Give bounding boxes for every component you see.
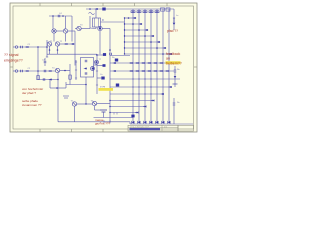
wire k1 down	[95, 27, 97, 29]
node in2	[37, 70, 39, 72]
base row 5	[125, 41, 161, 43]
wire q45	[49, 47, 51, 55]
diode D3	[84, 68, 87, 70]
wire x72 stub	[71, 16, 73, 42]
grid row m2	[110, 70, 174, 72]
comp blob2	[101, 77, 104, 80]
svg-text:an: an	[166, 57, 170, 61]
base row 2	[125, 23, 143, 25]
wire c8	[95, 109, 101, 111]
node n88	[56, 87, 58, 89]
node nq89	[85, 103, 86, 104]
grid row m5	[110, 93, 163, 95]
wire c3	[44, 58, 46, 61]
comp blob1	[103, 53, 106, 56]
row cross dot 4	[144, 35, 146, 37]
wire q9 down	[94, 106, 96, 110]
wire row53	[47, 53, 97, 55]
tick pair	[113, 113, 115, 115]
driver arrow u2	[139, 23, 142, 25]
wire q1 base	[52, 16, 54, 29]
wire bias vertical	[37, 47, 39, 80]
grid node 133-79	[133, 79, 134, 80]
node br4	[124, 35, 125, 36]
wire bottom ground rail	[58, 121, 130, 123]
wire box out	[94, 64, 98, 66]
node n47	[46, 46, 48, 48]
grid node 139-87	[139, 87, 140, 88]
node q4e	[49, 49, 51, 51]
svg-text:?? signal: ?? signal	[4, 53, 19, 57]
grid row m6	[110, 100, 155, 102]
capacitor C4	[58, 15, 60, 18]
gnd ticks	[103, 120, 105, 123]
node b110	[109, 49, 111, 51]
wire x50 vert	[49, 80, 51, 89]
wire q6 out	[60, 70, 70, 72]
driver arrow u1	[133, 17, 136, 19]
grid node 151-79	[151, 79, 152, 80]
led D5	[173, 18, 175, 23]
capacitor C5	[85, 60, 87, 63]
page background	[0, 0, 200, 144]
emitter resistor pair col2	[137, 11, 139, 13]
resistor R2	[25, 70, 28, 72]
node n70	[64, 70, 66, 72]
base row 1	[125, 17, 137, 19]
grid node 133-87	[133, 87, 134, 88]
bottom diode x133	[132, 121, 135, 124]
node br7	[124, 53, 125, 54]
grid row m0	[110, 55, 130, 57]
base row 7	[125, 53, 173, 55]
bottom diode x151	[150, 121, 153, 124]
drv arrow m2	[113, 70, 116, 72]
resistor R4	[69, 75, 72, 79]
transistor Q8	[72, 102, 76, 106]
box U1	[81, 58, 94, 78]
grid node 139-79	[139, 79, 140, 80]
comp blob4	[116, 84, 119, 87]
node t1	[52, 15, 54, 17]
driver arrow u3	[145, 29, 148, 31]
emitter resistor pair col4	[149, 11, 151, 13]
grid node 139-94	[139, 94, 140, 95]
transistor Q6	[55, 68, 59, 72]
out arrow y63x139	[135, 62, 138, 64]
wire q3 right	[81, 28, 90, 30]
output column wire 3	[144, 9, 146, 123]
wire q10 right	[102, 28, 110, 30]
svg-text:zusammen ??: zusammen ??	[22, 103, 42, 107]
grid node 145-87	[145, 87, 146, 88]
wire input2	[13, 70, 15, 72]
grid row m4	[110, 86, 171, 88]
driver arrow u5	[157, 41, 160, 43]
wire q1 down	[53, 34, 55, 42]
fb comp b	[173, 83, 178, 85]
tick 97a	[96, 70, 98, 72]
node n795	[57, 79, 58, 80]
comp cluster	[63, 96, 69, 98]
wire q2 down	[65, 34, 67, 42]
output column wire 4	[150, 9, 152, 123]
out arrow y71x151	[147, 70, 150, 72]
svg-text:gez?mt ???: gez?mt ???	[95, 122, 110, 126]
wire blob mid stub	[97, 65, 103, 67]
node br5	[124, 41, 125, 42]
stair arrow a2	[161, 93, 164, 95]
wire k1 to bus	[101, 21, 125, 23]
wire x75 vert	[74, 31, 76, 66]
bottom diode x139	[138, 121, 141, 124]
svg-text:pfad ??: pfad ??	[167, 29, 178, 33]
wire vert x47	[46, 40, 48, 57]
out arrow y63x163	[159, 62, 162, 64]
fb comp c	[173, 103, 176, 105]
wire x76 vert	[75, 60, 77, 80]
out arrow y71x133	[129, 70, 132, 72]
wire bus x97	[96, 54, 98, 94]
node b97a	[96, 54, 98, 56]
wire row44	[60, 43, 75, 45]
node t2	[62, 15, 64, 17]
out arrow y71x145	[141, 70, 144, 72]
base row 3	[125, 29, 149, 31]
row cross dot 5	[150, 41, 152, 43]
connector J2	[15, 70, 17, 72]
comp blob3	[115, 59, 118, 62]
grid node 133-94	[133, 94, 134, 95]
fb comp a	[174, 70, 177, 72]
row cross dot 2	[132, 23, 134, 25]
svg-text:R: R	[102, 19, 104, 22]
svg-text:treibern??: treibern??	[166, 62, 182, 66]
resistor R1	[25, 46, 28, 48]
transistor Q3	[77, 26, 81, 30]
wire led branch	[173, 9, 175, 30]
wire q10 down	[99, 31, 101, 55]
stair arrow a1	[169, 86, 172, 88]
wire q2 stub	[65, 16, 67, 29]
wire blob2 stub	[97, 77, 101, 79]
grid node 145-79	[145, 79, 146, 80]
grid row m8	[110, 112, 139, 114]
svg-text:?·??: ?·??	[100, 86, 106, 89]
wire q9 right	[97, 103, 110, 105]
transistor Q1	[52, 29, 56, 33]
wire x70 vert	[69, 64, 71, 85]
bottom diode x145	[144, 121, 147, 124]
node br3	[124, 29, 125, 30]
out arrow y63x133	[129, 62, 132, 64]
resistor R2b	[48, 70, 51, 72]
wire b97 stub	[97, 54, 103, 56]
node br1	[124, 17, 125, 18]
relay marks	[94, 18, 96, 27]
wire left ground vert	[57, 73, 59, 122]
node in1	[37, 46, 39, 48]
inductor L1	[89, 13, 95, 15]
output column wire 5	[156, 9, 158, 123]
wire base bus x124	[124, 18, 126, 54]
diode D2	[71, 43, 74, 45]
border tick top	[39, 3, 41, 6]
wire q8 down	[74, 106, 76, 122]
wire top small	[49, 15, 72, 17]
capacitor C2b	[44, 70, 46, 73]
transistor Q4	[47, 42, 51, 46]
grid node 151-94	[151, 94, 152, 95]
svg-text:eingänge??: eingänge??	[4, 59, 23, 63]
emitter resistor pair col3	[143, 11, 145, 13]
grid node 151-87	[151, 87, 152, 88]
out arrow y71x169	[165, 70, 168, 72]
title block	[128, 125, 178, 131]
capacitor C9	[43, 78, 45, 81]
capacitor C6	[85, 72, 87, 75]
wire q2 right	[68, 30, 75, 32]
wire k1 up	[95, 9, 97, 18]
stair arrow a3	[151, 100, 154, 102]
transistor Q9	[92, 101, 96, 105]
out arrow y71x163	[159, 70, 162, 72]
stair arrow a5	[135, 112, 138, 114]
capacitor C1	[21, 46, 23, 49]
wire bottom mid rail	[94, 117, 133, 119]
transistor Q5	[55, 42, 59, 46]
wire q8q9	[77, 103, 93, 105]
node q5e	[57, 49, 59, 51]
emitter resistor pair col5	[155, 11, 157, 13]
out arrow y71x157	[153, 70, 156, 72]
output column wire 2	[138, 9, 140, 123]
svg-text:feedback: feedback	[166, 52, 180, 56]
fb diode	[174, 76, 177, 78]
base row 4	[125, 35, 155, 37]
sheet paper	[10, 3, 197, 132]
bottom diode x163	[162, 121, 165, 124]
node m7	[109, 106, 110, 107]
driver arrow u4	[151, 35, 154, 37]
wire bottom right rail	[129, 122, 131, 124]
tick x76	[75, 61, 77, 63]
out arrow y71x139	[135, 70, 138, 72]
grid row m7	[110, 106, 147, 108]
row start dot	[128, 17, 130, 19]
wire q3 left	[75, 28, 77, 30]
output column wire 1	[132, 9, 134, 123]
out arrow y63x151	[147, 62, 150, 64]
emitter resistor pair col1	[131, 11, 133, 13]
wire fb vert	[174, 66, 176, 87]
relay box K1	[93, 18, 101, 27]
node m8	[109, 112, 110, 113]
node br2	[124, 23, 125, 24]
wire input1	[13, 46, 15, 48]
resistor R3	[37, 76, 40, 80]
transistor Q10	[98, 26, 102, 30]
diode D4	[95, 8, 98, 10]
base row 6	[125, 47, 167, 49]
capacitor C3	[44, 61, 46, 64]
node rail1	[89, 8, 91, 10]
wire q1q2	[57, 30, 64, 32]
wire box down	[85, 77, 87, 85]
resistor R9	[49, 79, 52, 81]
diode D1	[64, 43, 67, 45]
capacitor C7	[110, 53, 112, 56]
wire q6 in	[54, 70, 56, 72]
output column wire 6	[162, 9, 164, 123]
wire x84 vert	[85, 85, 87, 105]
out arrow y63x157	[153, 62, 156, 64]
wire fb vert2	[173, 98, 175, 124]
comp blob mid	[103, 64, 106, 67]
highlight treiber	[166, 61, 181, 64]
grid row m3	[110, 78, 180, 80]
wire row88	[50, 87, 66, 89]
transistor Q7b	[91, 67, 95, 71]
wire bias row	[38, 79, 58, 81]
row cross dot 3	[138, 29, 140, 31]
connector J1	[15, 46, 17, 48]
svg-text:der pfad ?: der pfad ?	[22, 91, 36, 95]
yellow highlight	[99, 88, 114, 91]
node n84	[85, 84, 87, 86]
out arrow y63x145	[141, 62, 144, 64]
out arrow y63x169	[165, 62, 168, 64]
transistor Q7	[95, 60, 99, 64]
capacitor C8	[100, 110, 107, 112]
bottom diode x169	[168, 121, 171, 124]
border tick sides	[10, 66, 13, 68]
title blue band	[130, 128, 161, 130]
bottom diode x157	[156, 121, 159, 124]
node m6	[109, 100, 110, 101]
wire row84	[66, 84, 86, 86]
svg-text:amp-schematic rev?: amp-schematic rev?	[130, 125, 150, 128]
driver arrow u6	[163, 47, 166, 49]
comp blob5	[102, 8, 105, 11]
fuse F1	[161, 8, 165, 11]
transistor Q2	[63, 29, 67, 33]
grid node 145-94	[145, 94, 146, 95]
border tick bottom	[39, 129, 41, 132]
drv arrow m1	[113, 62, 116, 64]
stair arrow a4	[143, 106, 146, 108]
wire top rail	[86, 8, 174, 10]
output column wire 7	[168, 9, 170, 123]
driver arrow u7	[169, 53, 172, 55]
capacitor C2	[21, 70, 23, 73]
fuse F2	[166, 8, 170, 11]
comp blob6	[131, 115, 134, 118]
wire bus x110	[109, 48, 111, 122]
row cross dot 6	[156, 47, 158, 49]
grid row m1	[110, 62, 174, 64]
inner border	[13, 6, 194, 129]
node br6	[124, 47, 125, 48]
row cross dot 7	[162, 53, 164, 55]
